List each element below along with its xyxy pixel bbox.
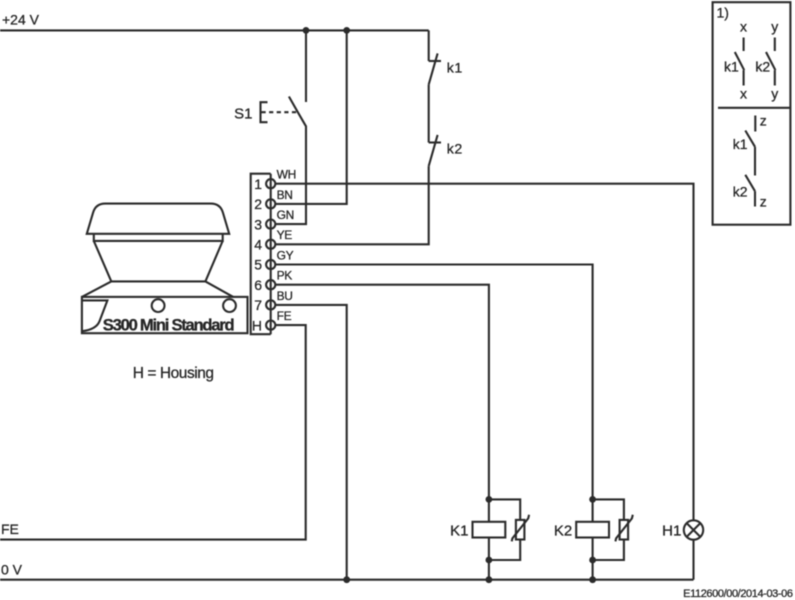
legend series contact k1 (z) bbox=[745, 116, 755, 176]
varistor K2 bbox=[615, 515, 632, 542]
svg-text:H1: H1 bbox=[662, 523, 681, 540]
svg-text:x: x bbox=[740, 85, 747, 101]
wire K2 varistor branch bottom bbox=[593, 540, 624, 561]
contact k1 bbox=[429, 53, 441, 84]
svg-text:E112600/00/2014-03-06: E112600/00/2014-03-06 bbox=[683, 588, 793, 600]
junction dot K2 bottom bbox=[589, 557, 596, 564]
wire GY pin5 to K2 bbox=[276, 265, 593, 522]
junction dot K2 0V bbox=[589, 576, 596, 583]
wire k2 to pin4 YE bbox=[276, 166, 429, 244]
svg-text:GN: GN bbox=[277, 208, 294, 222]
wire BU pin7 to 0V bbox=[276, 305, 347, 580]
svg-text:0 V: 0 V bbox=[1, 561, 23, 577]
svg-text:BN: BN bbox=[277, 188, 293, 202]
wire S1 branch from rail bbox=[305, 30, 307, 102]
svg-text:y: y bbox=[771, 18, 778, 34]
wire k-chain drop from rail bbox=[428, 30, 430, 61]
svg-text:WH: WH bbox=[277, 168, 296, 182]
legend series contact k2 (z) bbox=[745, 175, 755, 207]
wire K1 varistor branch top bbox=[489, 499, 520, 520]
svg-text:2: 2 bbox=[254, 196, 262, 212]
wire FE pinH to FE rail bbox=[0, 325, 306, 539]
svg-text:GY: GY bbox=[277, 248, 294, 262]
pin 6 bbox=[266, 280, 275, 289]
svg-text:BU: BU bbox=[277, 289, 293, 303]
svg-text:K2: K2 bbox=[554, 523, 572, 540]
svg-text:1): 1) bbox=[717, 4, 729, 20]
lamp H1 bbox=[684, 520, 703, 539]
wire K1 varistor branch bottom bbox=[489, 540, 520, 561]
legend box bbox=[713, 2, 791, 225]
wire k1-k2 link bbox=[428, 85, 430, 143]
connector block bbox=[251, 174, 271, 335]
svg-text:S300 Mini Standard: S300 Mini Standard bbox=[103, 315, 235, 334]
wire K2 varistor branch top bbox=[593, 499, 624, 520]
svg-text:k2: k2 bbox=[447, 142, 463, 158]
svg-text:H: H bbox=[252, 317, 262, 333]
wire BN branch from rail to pin2 bbox=[276, 30, 347, 204]
svg-text:YE: YE bbox=[277, 228, 293, 242]
relay K2 coil bbox=[576, 522, 609, 538]
svg-text:3: 3 bbox=[254, 216, 262, 232]
junction dot K1 top bbox=[486, 496, 493, 503]
svg-text:5: 5 bbox=[254, 257, 262, 273]
svg-text:FE: FE bbox=[1, 521, 19, 537]
svg-text:k1: k1 bbox=[724, 58, 739, 74]
svg-text:H = Housing: H = Housing bbox=[133, 365, 214, 382]
wire PK pin6 to K1 bbox=[276, 285, 489, 522]
junction dot K1 0V bbox=[486, 576, 493, 583]
svg-text:x: x bbox=[740, 18, 747, 34]
pin H bbox=[266, 321, 275, 330]
svg-text:k1: k1 bbox=[447, 60, 463, 76]
relay K1 coil bbox=[473, 522, 506, 538]
wire +24V rail bbox=[0, 29, 429, 31]
junction dot K1 bottom bbox=[486, 557, 493, 564]
svg-text:7: 7 bbox=[254, 297, 262, 313]
svg-text:S1: S1 bbox=[234, 105, 252, 122]
svg-text:+24 V: +24 V bbox=[2, 12, 40, 28]
svg-text:z: z bbox=[760, 193, 767, 209]
junction dot rail-BN bbox=[343, 27, 350, 34]
svg-text:PK: PK bbox=[277, 269, 293, 283]
pin 3 bbox=[266, 220, 275, 229]
pin 5 bbox=[266, 260, 275, 269]
svg-text:z: z bbox=[760, 113, 767, 129]
legend contact k1 (x) bbox=[735, 38, 744, 86]
svg-text:k2: k2 bbox=[733, 183, 748, 199]
svg-text:k2: k2 bbox=[755, 58, 770, 74]
switch S1 actuator bbox=[261, 102, 298, 122]
svg-text:FE: FE bbox=[277, 309, 292, 323]
pin 7 bbox=[266, 300, 275, 309]
scanner S300 body bbox=[82, 204, 248, 335]
junction dot K2 top bbox=[589, 496, 596, 503]
legend contact k2 (y) bbox=[766, 38, 775, 86]
svg-text:4: 4 bbox=[254, 237, 262, 253]
varistor K1 bbox=[512, 515, 529, 542]
switch S1 blade and wire to pin3 GN bbox=[276, 97, 306, 225]
junction dot BU 0V bbox=[343, 576, 350, 583]
wire K2 coil to 0V bbox=[592, 538, 594, 580]
wire K1 coil to 0V bbox=[488, 538, 490, 580]
junction dot rail-S1 bbox=[303, 27, 310, 34]
wire WH pin1 to H1 bbox=[276, 184, 694, 521]
svg-text:y: y bbox=[771, 85, 778, 101]
svg-text:1: 1 bbox=[254, 176, 262, 192]
svg-text:k1: k1 bbox=[733, 136, 748, 152]
pin 4 bbox=[266, 240, 275, 249]
wire H1 to 0V bbox=[692, 540, 694, 580]
pin 2 bbox=[266, 199, 275, 208]
legend separator bbox=[718, 107, 790, 109]
svg-text:6: 6 bbox=[254, 277, 262, 293]
contact k2 bbox=[429, 135, 441, 166]
svg-text:K1: K1 bbox=[450, 523, 468, 540]
pin 1 bbox=[266, 179, 275, 188]
wire 0V rail bbox=[0, 579, 694, 581]
